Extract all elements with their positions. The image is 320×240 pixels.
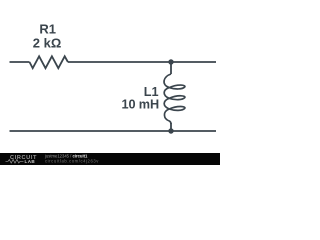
node junction top <box>168 59 173 64</box>
svg-text:10 mH: 10 mH <box>122 98 159 112</box>
watermark logo resistor zigzag <box>6 160 24 164</box>
inductor L1 coil <box>164 74 185 124</box>
wire inductor bottom lead <box>170 123 172 131</box>
resistor R1 <box>30 56 68 68</box>
svg-text:2 kΩ: 2 kΩ <box>33 36 62 51</box>
svg-text:LAB: LAB <box>25 159 36 164</box>
watermark bar <box>0 153 220 165</box>
wire top-left lead <box>10 61 30 63</box>
wire bottom <box>10 130 217 132</box>
svg-text:circuitlab.com/c4j263v: circuitlab.com/c4j263v <box>45 159 99 164</box>
svg-text:R1: R1 <box>39 22 56 37</box>
wire top-right from resistor to right end <box>68 61 216 63</box>
wire inductor top lead <box>170 62 172 74</box>
node junction bottom <box>168 128 173 133</box>
